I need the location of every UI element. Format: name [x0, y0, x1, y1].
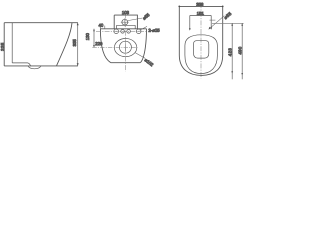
water inlet circle [122, 19, 128, 25]
side view front curved edge [57, 23, 72, 66]
40 bracket [100, 26, 104, 29]
left dimension line 130 [93, 29, 95, 48]
top view outer outline [179, 6, 222, 75]
small hole left [121, 30, 125, 34]
arrowheads 490 [241, 23, 243, 75]
svg-text:⌀102: ⌀102 [144, 57, 155, 67]
outer dimension line 490 [241, 23, 243, 79]
small hole right [127, 30, 131, 34]
side view top edge [4, 22, 78, 24]
svg-text:40: 40 [99, 23, 104, 28]
rear view flush housing rectangle [114, 15, 137, 29]
leader arrowhead [209, 27, 211, 30]
svg-text:⌀55: ⌀55 [142, 12, 151, 21]
svg-text:130: 130 [85, 33, 90, 41]
side view underside shelf [12, 63, 30, 66]
hole centre dots [116, 30, 139, 33]
arrowheads of right 335 dimension [77, 23, 79, 66]
flush opening arrows [189, 27, 212, 30]
svg-text:358: 358 [196, 2, 204, 7]
outlet inner ellipse [119, 41, 131, 53]
svg-text:103: 103 [122, 10, 130, 15]
inlet centre cross [121, 18, 129, 26]
fixing hole right [136, 29, 141, 34]
svg-text:335: 335 [72, 39, 77, 47]
side view drain bump [28, 66, 41, 69]
top view flush opening [190, 16, 211, 30]
rear view body top edge [100, 28, 146, 30]
seat hinge tick [210, 19, 216, 21]
svg-text:2-⌀25: 2-⌀25 [148, 28, 160, 33]
outlet centre cross [124, 44, 126, 51]
rear view body bottom edge [111, 62, 141, 64]
side view bottom edge [4, 65, 78, 67]
extension tick at outlet axis [92, 46, 137, 48]
rear view vertical centreline [124, 14, 126, 72]
top view seat ring [185, 35, 218, 74]
svg-text:⌀55: ⌀55 [223, 11, 233, 20]
dimension 358 arrow dots [178, 6, 223, 8]
leader outlet diameter [135, 53, 145, 59]
svg-text:151: 151 [197, 11, 205, 16]
top extension line [212, 22, 244, 24]
outlet outer circle [114, 39, 136, 57]
dimension line 335 right [77, 23, 79, 66]
svg-text:423: 423 [228, 48, 233, 57]
arrowheads 423 [231, 23, 233, 73]
rear view body left edge [100, 29, 110, 63]
rear view horizontal centreline [96, 30, 148, 32]
rear view body right edge [140, 29, 146, 63]
svg-text:335: 335 [0, 42, 5, 51]
leader seat diameter [209, 16, 225, 30]
top view centreline [200, 3, 202, 78]
arrowheads 130 [93, 29, 95, 48]
side view inner wall line [11, 23, 13, 63]
svg-text:490: 490 [237, 46, 242, 54]
leader inlet diameter [128, 18, 143, 21]
inner dimension line 423 [231, 23, 233, 79]
rear view mounting plate line [117, 25, 136, 29]
bowl opening [194, 41, 209, 58]
leader fixing holes [140, 26, 147, 30]
fixing hole left [114, 29, 119, 34]
side view back edge [3, 23, 5, 66]
svg-text:220: 220 [95, 41, 103, 46]
